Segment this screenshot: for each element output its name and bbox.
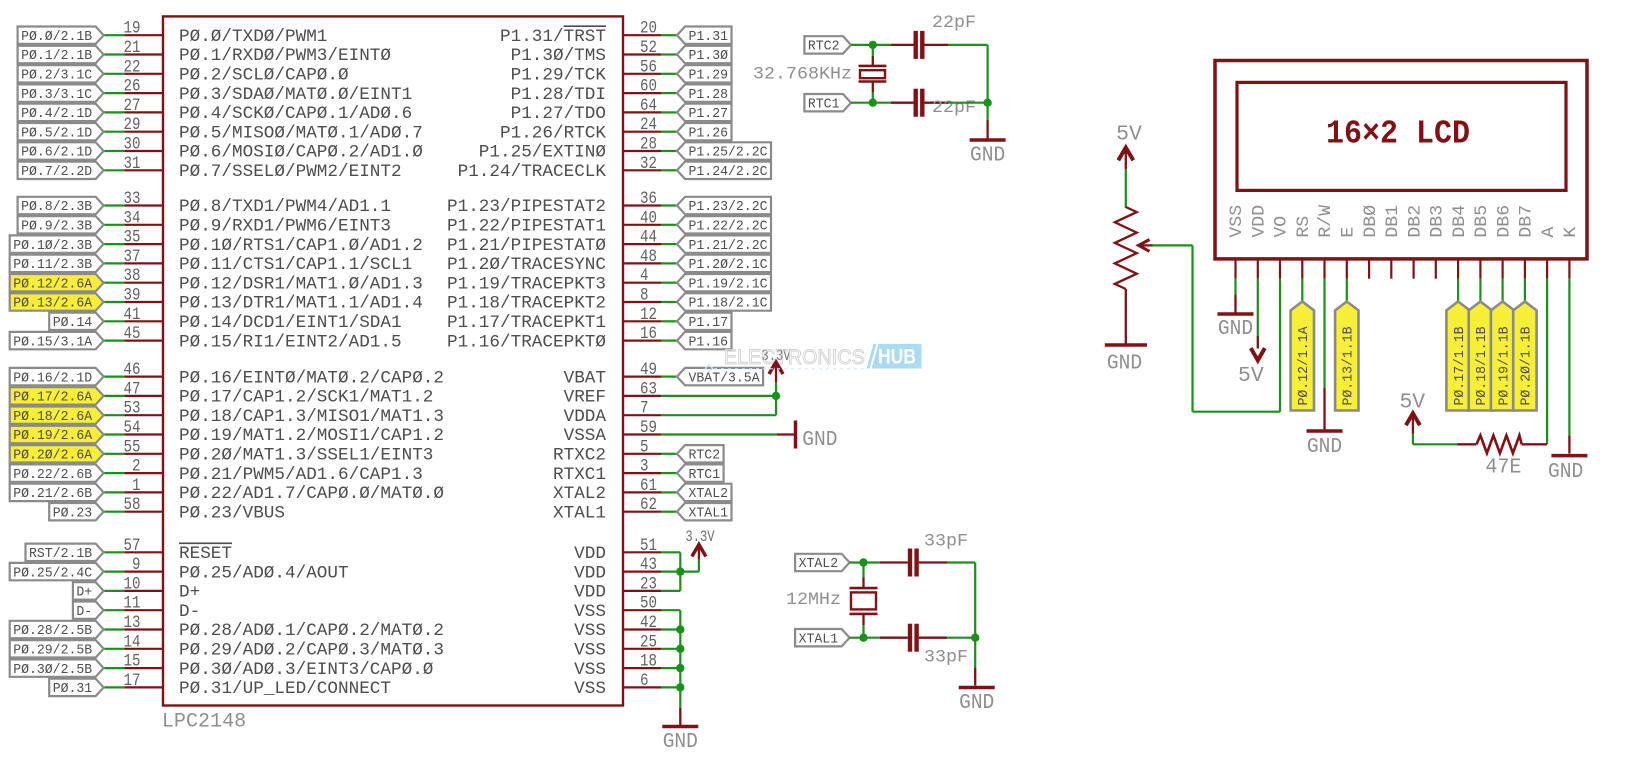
- svg-text:11: 11: [124, 594, 141, 614]
- svg-text:PØ.1/2.1B: PØ.1/2.1B: [21, 48, 92, 64]
- svg-text:P1.25/2.2C: P1.25/2.2C: [689, 145, 768, 161]
- svg-text:49: 49: [640, 360, 657, 380]
- pin 21 stub: [124, 53, 163, 55]
- pin 23 stub: [623, 590, 661, 592]
- svg-text:VBAT: VBAT: [564, 369, 606, 388]
- net wire P1.27: [661, 111, 677, 113]
- svg-text:RS: RS: [1295, 216, 1314, 238]
- svg-text:P1.31/TRST: P1.31/TRST: [500, 28, 606, 47]
- pin 25 stub: [623, 648, 661, 650]
- net flag P1.25/2.2C: [677, 142, 771, 159]
- svg-text:PØ.2Ø/1.1B: PØ.2Ø/1.1B: [1519, 327, 1535, 406]
- svg-text:RTC1: RTC1: [808, 96, 840, 112]
- svg-text:RTXC2: RTXC2: [553, 447, 606, 466]
- svg-text:GND: GND: [1107, 351, 1142, 376]
- svg-text:PØ.25/2.4C: PØ.25/2.4C: [13, 565, 92, 581]
- svg-text:PØ.17/2.6A: PØ.17/2.6A: [13, 390, 93, 406]
- svg-text:63: 63: [640, 379, 657, 399]
- svg-text:DB7: DB7: [1518, 205, 1537, 238]
- svg-text:43: 43: [640, 555, 657, 575]
- net wire VSS: [661, 628, 680, 630]
- net wire VSS: [661, 648, 680, 650]
- junction 33pF GND: [971, 634, 979, 642]
- net wire E(LCD): [1346, 279, 1348, 303]
- svg-text:P1.2Ø/2.1C: P1.2Ø/2.1C: [689, 257, 768, 273]
- net wire RTC1: [661, 472, 677, 474]
- pin 62 stub: [623, 511, 661, 513]
- LCD display window: [1237, 82, 1566, 190]
- svg-text:44: 44: [640, 228, 657, 248]
- net wire P0.12/2.6A: [104, 282, 125, 284]
- svg-text:VBAT/3.5A: VBAT/3.5A: [689, 370, 761, 386]
- svg-text:PØ.12/DSR1/MAT1.Ø/AD1.3: PØ.12/DSR1/MAT1.Ø/AD1.3: [179, 275, 423, 294]
- svg-text:K: K: [1562, 226, 1581, 238]
- svg-text:18: 18: [640, 652, 657, 672]
- svg-text:PØ.11/CTS1/CAP1.1/SCL1: PØ.11/CTS1/CAP1.1/SCL1: [179, 256, 412, 275]
- LCD pin stub DB5: [1479, 259, 1481, 279]
- svg-text:P1.31: P1.31: [689, 29, 729, 45]
- svg-text:P1.22/PIPESTAT1: P1.22/PIPESTAT1: [447, 218, 606, 237]
- svg-text:P1.28: P1.28: [689, 87, 729, 103]
- pin 32 stub: [623, 169, 661, 171]
- svg-text:PØ.2Ø/MAT1.3/SSEL1/EINT3: PØ.2Ø/MAT1.3/SSEL1/EINT3: [179, 447, 433, 466]
- resistor R1 47E: [1458, 443, 1477, 445]
- net wire VSS(LCD): [1234, 279, 1236, 295]
- net wire P0.29/2.5B: [104, 648, 125, 650]
- pin 45 stub: [124, 340, 163, 342]
- pin 63 stub: [623, 395, 661, 397]
- svg-text:40: 40: [640, 208, 657, 228]
- pin 39 stub: [124, 301, 163, 303]
- svg-text:D-: D-: [76, 604, 92, 620]
- svg-text:PØ.17/CAP1.2/SCK1/MAT1.2: PØ.17/CAP1.2/SCK1/MAT1.2: [179, 389, 433, 408]
- svg-text:61: 61: [640, 476, 657, 496]
- net wire P0.23: [104, 511, 125, 513]
- svg-text:39: 39: [124, 286, 141, 306]
- svg-text:RESET: RESET: [179, 545, 232, 564]
- svg-text:PØ.19/2.6A: PØ.19/2.6A: [13, 428, 93, 444]
- svg-text:PØ.17/1.1B: PØ.17/1.1B: [1452, 327, 1468, 406]
- svg-text:13: 13: [124, 613, 141, 633]
- net wire GND vertical (33pF): [974, 563, 976, 638]
- net wire P0.4/2.1D: [104, 111, 125, 113]
- svg-text:XTAL2: XTAL2: [799, 556, 839, 572]
- svg-text:VDDA: VDDA: [564, 408, 607, 427]
- net wire RS(LCD): [1301, 279, 1303, 303]
- net flag P0.4/2.1D: [18, 104, 104, 121]
- svg-text:PØ.29/ADØ.2/CAPØ.3/MATØ.3: PØ.29/ADØ.2/CAPØ.3/MATØ.3: [179, 642, 444, 661]
- svg-text:3: 3: [640, 457, 649, 477]
- svg-text:D+: D+: [76, 585, 92, 601]
- net flag P1.24/2.2C: [677, 162, 771, 179]
- svg-text:24: 24: [640, 115, 657, 135]
- LCD pin stub VO: [1279, 259, 1281, 279]
- net wire P1.28: [661, 92, 677, 94]
- pin 10 stub: [124, 590, 163, 592]
- net flag P1.22/2.2C: [677, 216, 771, 233]
- svg-text:PØ.1Ø/2.3B: PØ.1Ø/2.3B: [13, 238, 92, 254]
- svg-text:PØ.9/RXD1/PWM6/EINT3: PØ.9/RXD1/PWM6/EINT3: [179, 218, 391, 237]
- svg-text:PØ.12/1.1A: PØ.12/1.1A: [1296, 326, 1312, 406]
- net wire P0.19/1.1B: [1501, 279, 1503, 303]
- svg-text:12: 12: [640, 305, 657, 325]
- crystal Q2 12MHz: [862, 563, 864, 578]
- svg-text:VSS: VSS: [574, 622, 606, 641]
- LCD pin stub VDD: [1257, 259, 1259, 279]
- net wire P0.20/2.6A: [104, 453, 125, 455]
- net flag XTAL2: [677, 484, 732, 501]
- svg-text:XTAL1: XTAL1: [689, 505, 729, 521]
- svg-text:DB5: DB5: [1473, 205, 1492, 238]
- net wire P0.11/2.3B: [104, 262, 125, 264]
- svg-text:PØ.8/TXD1/PWM4/AD1.1: PØ.8/TXD1/PWM4/AD1.1: [179, 198, 391, 217]
- net wire GND vertical (22pF): [986, 45, 988, 103]
- svg-text:PØ.19/1.1B: PØ.19/1.1B: [1496, 327, 1512, 406]
- net wire P1.30: [661, 53, 677, 55]
- svg-text:29: 29: [124, 115, 141, 135]
- net flag P0.18/1.1B: [1469, 302, 1492, 411]
- svg-text:DB3: DB3: [1429, 205, 1448, 238]
- net wire P0.16/2.1D: [104, 376, 125, 378]
- net flag RTC2: [804, 36, 851, 53]
- net flag P1.17: [677, 313, 732, 330]
- supply 5V arrow (pot): [1118, 148, 1133, 161]
- net wire P0.1/2.1B: [104, 53, 125, 55]
- svg-text:38: 38: [124, 266, 141, 286]
- svg-text:P1.16: P1.16: [689, 334, 729, 350]
- svg-text:PØ.19/MAT1.2/MOSI1/CAP1.2: PØ.19/MAT1.2/MOSI1/CAP1.2: [179, 427, 444, 446]
- svg-text:P1.21/PIPESTATØ: P1.21/PIPESTATØ: [447, 237, 606, 256]
- svg-text:14: 14: [124, 632, 141, 652]
- svg-text:P1.22/2.2C: P1.22/2.2C: [689, 219, 768, 235]
- svg-text:1: 1: [132, 476, 141, 496]
- capacitor C2 22pF: [891, 102, 914, 104]
- pin 36 stub: [623, 204, 661, 206]
- ground GND (VSS): [662, 725, 698, 729]
- svg-text:XTAL2: XTAL2: [689, 486, 729, 502]
- pin 34 stub: [124, 224, 163, 226]
- pin 30 stub: [124, 150, 163, 152]
- svg-text:8: 8: [640, 286, 649, 306]
- svg-text:50: 50: [640, 594, 657, 614]
- net wire P1.24/2.2C: [661, 169, 677, 171]
- svg-text:PØ.Ø/2.1B: PØ.Ø/2.1B: [21, 29, 92, 45]
- pin 9 stub: [124, 570, 163, 572]
- svg-text:A: A: [1540, 226, 1559, 238]
- net flag P0.19/1.1B: [1491, 302, 1514, 411]
- pin 6 stub: [623, 686, 661, 688]
- net wire VDD: [661, 551, 680, 553]
- ground GND (VSSA) rotated: [777, 433, 794, 435]
- RESET overline: [179, 542, 232, 544]
- svg-text:PØ.6/MOSIØ/CAPØ.2/AD1.Ø: PØ.6/MOSIØ/CAPØ.2/AD1.Ø: [179, 144, 423, 163]
- svg-text:16: 16: [640, 324, 657, 344]
- net wire P0.8/2.3B: [104, 204, 125, 206]
- net flag P1.30: [677, 46, 732, 63]
- svg-text:PØ.18/1.1B: PØ.18/1.1B: [1474, 327, 1490, 406]
- net wire VDD: [661, 590, 680, 592]
- net flag P0.25/2.4C: [10, 563, 104, 580]
- net wire P0.17/1.1B: [1457, 279, 1459, 303]
- svg-text:PØ.Ø/TXDØ/PWM1: PØ.Ø/TXDØ/PWM1: [179, 28, 327, 47]
- svg-text:VDD: VDD: [574, 545, 606, 564]
- VSS bus wire: [679, 610, 681, 687]
- junction VREF/VDDA: [772, 392, 780, 400]
- svg-text:PØ.23/VBUS: PØ.23/VBUS: [179, 504, 285, 523]
- watermark HUB box: [872, 344, 922, 369]
- svg-text:VDD: VDD: [574, 584, 606, 603]
- pin 12 stub: [623, 320, 661, 322]
- svg-text:LPC2148: LPC2148: [162, 710, 246, 733]
- pin 48 stub: [623, 262, 661, 264]
- ground GND (LCD VSS): [1234, 295, 1236, 313]
- net wire P0.13/2.6A: [104, 301, 125, 303]
- svg-text:17: 17: [124, 671, 141, 691]
- svg-text:52: 52: [640, 38, 657, 58]
- LCD pin stub DB4: [1457, 259, 1459, 279]
- svg-text:22: 22: [124, 57, 141, 77]
- svg-text:25: 25: [640, 632, 657, 652]
- net flag D+: [73, 582, 104, 599]
- IC U1 LPC2148 body: [163, 16, 623, 705]
- pin 7 stub: [623, 414, 661, 416]
- net flag P0.20/2.6A: [10, 445, 104, 462]
- net wire P1.29: [661, 73, 677, 75]
- svg-text:P1.3Ø: P1.3Ø: [689, 48, 729, 64]
- svg-text:31: 31: [124, 154, 141, 174]
- svg-text:VSS: VSS: [574, 642, 606, 661]
- svg-text:DB2: DB2: [1406, 205, 1425, 238]
- svg-text:PØ.2/3.1C: PØ.2/3.1C: [21, 68, 92, 84]
- svg-text:54: 54: [124, 418, 141, 438]
- svg-text:PØ.16/EINTØ/MATØ.2/CAPØ.2: PØ.16/EINTØ/MATØ.2/CAPØ.2: [179, 369, 444, 388]
- junction 22pF GND: [983, 99, 991, 107]
- svg-text:VSS: VSS: [1228, 205, 1247, 238]
- pin 29 stub: [124, 131, 163, 133]
- net wire P0.20/1.1B: [1524, 279, 1526, 303]
- net wire XTAL2: [850, 561, 880, 563]
- svg-text:PØ.21/2.6B: PØ.21/2.6B: [13, 486, 92, 502]
- svg-text:PØ.12/2.6A: PØ.12/2.6A: [13, 276, 93, 292]
- net wire VSS: [661, 667, 680, 669]
- net flag P0.30/2.5B: [10, 659, 104, 676]
- svg-text:PØ.18/CAP1.3/MISO1/MAT1.3: PØ.18/CAP1.3/MISO1/MAT1.3: [179, 408, 444, 427]
- svg-text:15: 15: [124, 652, 141, 672]
- net wire VO(LCD): [1279, 279, 1281, 412]
- svg-text:P1.27/TDO: P1.27/TDO: [511, 105, 606, 124]
- net wire P1.20/2.1C: [661, 262, 677, 264]
- pin 64 stub: [623, 111, 661, 113]
- svg-text:PØ.1Ø/RTS1/CAP1.Ø/AD1.2: PØ.1Ø/RTS1/CAP1.Ø/AD1.2: [179, 237, 423, 256]
- pin 53 stub: [124, 414, 163, 416]
- pin 41 stub: [124, 320, 163, 322]
- pin 51 stub: [623, 551, 661, 553]
- svg-text:30: 30: [124, 135, 141, 155]
- svg-text:ELECTRONICS: ELECTRONICS: [724, 345, 865, 369]
- pin 56 stub: [623, 73, 661, 75]
- svg-text:35: 35: [124, 228, 141, 248]
- svg-text:PØ.21/PWM5/AD1.6/CAP1.3: PØ.21/PWM5/AD1.6/CAP1.3: [179, 466, 423, 485]
- svg-text:RTC2: RTC2: [808, 39, 840, 55]
- svg-text:PØ.1/RXDØ/PWM3/EINTØ: PØ.1/RXDØ/PWM3/EINTØ: [179, 47, 391, 66]
- svg-text:P1.27: P1.27: [689, 106, 729, 122]
- net flag RTC1: [677, 464, 724, 481]
- net wire P0.30/2.5B: [104, 667, 125, 669]
- net wire VDDA: [661, 414, 776, 416]
- LCD pin stub A: [1546, 259, 1548, 279]
- pin 1 stub: [124, 491, 163, 493]
- svg-text:P1.19/2.1C: P1.19/2.1C: [689, 276, 768, 292]
- svg-text:PØ.14/DCD1/EINT1/SDA1: PØ.14/DCD1/EINT1/SDA1: [179, 314, 402, 333]
- pin 61 stub: [623, 491, 661, 493]
- net wire D-: [104, 609, 125, 611]
- svg-text:3.3V: 3.3V: [685, 528, 714, 546]
- svg-text:12MHz: 12MHz: [786, 591, 841, 610]
- net wire P1.21/2.2C: [661, 243, 677, 245]
- pin 47 stub: [124, 395, 163, 397]
- svg-text:22pF: 22pF: [932, 14, 976, 33]
- pin 13 stub: [124, 628, 163, 630]
- LCD pin stub E: [1346, 259, 1348, 279]
- net wire VSSA: [661, 433, 777, 435]
- pin 60 stub: [623, 92, 661, 94]
- svg-text:P1.3Ø/TMS: P1.3Ø/TMS: [511, 47, 606, 66]
- svg-text:P1.26/RTCK: P1.26/RTCK: [500, 124, 607, 143]
- net flag P0.15/3.1A: [10, 332, 104, 349]
- net flag P1.18/2.1C: [677, 293, 771, 310]
- svg-text:PØ.2/SCLØ/CAPØ.Ø: PØ.2/SCLØ/CAPØ.Ø: [179, 67, 349, 86]
- svg-text:PØ.5/MISOØ/MATØ.1/ADØ.7: PØ.5/MISOØ/MATØ.1/ADØ.7: [179, 124, 423, 143]
- net wire P0.0/2.1B: [104, 34, 125, 36]
- net flag P0.17/1.1B: [1446, 302, 1469, 411]
- svg-text:PØ.3/SDAØ/MATØ.Ø/EINT1: PØ.3/SDAØ/MATØ.Ø/EINT1: [179, 86, 412, 105]
- pin 37 stub: [124, 262, 163, 264]
- svg-text:PØ.9/2.3B: PØ.9/2.3B: [21, 219, 92, 235]
- LCD pin stub DB3: [1435, 259, 1437, 279]
- ground GND (33pF): [974, 668, 976, 686]
- pin 59 stub: [623, 433, 661, 435]
- net flag P0.10/2.3B: [10, 235, 104, 252]
- svg-text:P1.26: P1.26: [689, 125, 729, 141]
- net flag RTC1: [804, 94, 851, 111]
- svg-text:VSS: VSS: [574, 661, 606, 680]
- svg-text:47E: 47E: [1485, 455, 1521, 480]
- net wire P1.18/2.1C: [661, 301, 677, 303]
- svg-text:P1.25/EXTINØ: P1.25/EXTINØ: [479, 144, 606, 163]
- svg-text:VREF: VREF: [564, 389, 606, 408]
- svg-text:36: 36: [640, 189, 657, 209]
- capacitor C1 22pF: [891, 44, 914, 46]
- pin 57 stub: [124, 551, 163, 553]
- LCD pin stub RS: [1301, 259, 1303, 279]
- svg-text:P1.19/TRACEPKT3: P1.19/TRACEPKT3: [447, 275, 606, 294]
- LCD pin stub K: [1568, 259, 1570, 279]
- net wire P0.14: [104, 320, 125, 322]
- svg-text:PØ.5/2.1D: PØ.5/2.1D: [21, 125, 92, 141]
- svg-text:P1.17: P1.17: [689, 315, 729, 331]
- pin 22 stub: [124, 73, 163, 75]
- svg-text:10: 10: [124, 574, 141, 594]
- potentiometer RV1 wiper arrow: [1139, 240, 1150, 252]
- LCD pin stub R/W: [1323, 259, 1325, 279]
- net flag P0.17/2.6A: [10, 387, 104, 404]
- svg-text:P1.2Ø/TRACESYNC: P1.2Ø/TRACESYNC: [447, 256, 606, 275]
- svg-text:27: 27: [124, 96, 141, 116]
- svg-text:59: 59: [640, 418, 657, 438]
- svg-text:GND: GND: [1218, 316, 1253, 341]
- supply 3.3V arrow (VDD): [698, 546, 700, 559]
- wire VDD to 3.3V: [680, 570, 699, 572]
- svg-text:2: 2: [132, 457, 141, 477]
- svg-text:P1.24/TRACECLK: P1.24/TRACECLK: [458, 163, 607, 182]
- svg-text:VDD: VDD: [574, 564, 606, 583]
- watermark slash: [867, 344, 877, 369]
- pin 35 stub: [124, 243, 163, 245]
- svg-text:19: 19: [124, 19, 141, 39]
- pin 14 stub: [124, 648, 163, 650]
- svg-text:GND: GND: [663, 729, 698, 754]
- svg-text:GND: GND: [959, 690, 994, 715]
- net wire P0.15/3.1A: [104, 340, 125, 342]
- junction XTAL2: [859, 558, 867, 566]
- net wire P1.22/2.2C: [661, 224, 677, 226]
- net flag P0.21/2.6B: [10, 484, 104, 501]
- net flag P1.26: [677, 123, 732, 140]
- svg-text:51: 51: [640, 536, 657, 556]
- net flag P0.19/2.6A: [10, 426, 104, 443]
- svg-text:PØ.6/2.1D: PØ.6/2.1D: [21, 145, 92, 161]
- pin 20 stub: [623, 34, 661, 36]
- svg-text:57: 57: [124, 536, 141, 556]
- net flag P0.12/1.1A: [1291, 302, 1314, 411]
- svg-text:RTC2: RTC2: [689, 448, 721, 464]
- svg-text:RTC1: RTC1: [689, 467, 721, 483]
- pin 3 stub: [623, 472, 661, 474]
- pin 17 stub: [124, 686, 163, 688]
- pin 50 stub: [623, 609, 661, 611]
- net wire P0.17/2.6A: [104, 395, 125, 397]
- net flag P0.13/2.6A: [10, 293, 104, 310]
- net flag P0.23: [49, 503, 103, 520]
- pin 44 stub: [623, 243, 661, 245]
- watermark dashed underline: [714, 368, 866, 370]
- net wire VBAT/3.5A: [661, 376, 677, 378]
- pin 54 stub: [124, 433, 163, 435]
- svg-text:42: 42: [640, 613, 657, 633]
- svg-text:PØ.18/2.6A: PØ.18/2.6A: [13, 409, 93, 425]
- svg-text:DB6: DB6: [1495, 205, 1514, 238]
- svg-text:32: 32: [640, 154, 657, 174]
- junction VDD: [676, 567, 684, 575]
- net flag P1.21/2.2C: [677, 235, 771, 252]
- net flag P0.7/2.2D: [18, 162, 104, 179]
- net flag P0.31: [49, 679, 103, 696]
- svg-text:60: 60: [640, 77, 657, 97]
- svg-text:PØ.3Ø/ADØ.3/EINT3/CAPØ.Ø: PØ.3Ø/ADØ.3/EINT3/CAPØ.Ø: [179, 661, 433, 680]
- svg-text:GND: GND: [1548, 459, 1583, 484]
- svg-text:64: 64: [640, 96, 657, 116]
- svg-text:VO: VO: [1273, 216, 1292, 238]
- pin 38 stub: [124, 282, 163, 284]
- svg-text:VSS: VSS: [574, 680, 606, 699]
- net flag P0.8/2.3B: [18, 197, 104, 214]
- svg-text:PØ.8/2.3B: PØ.8/2.3B: [21, 199, 92, 215]
- svg-text:26: 26: [124, 77, 141, 97]
- svg-text:XTAL1: XTAL1: [799, 631, 839, 647]
- ground GND (LCD K): [1568, 435, 1570, 453]
- net flag P1.29: [677, 65, 732, 82]
- svg-text:PØ.13/1.1B: PØ.13/1.1B: [1341, 327, 1357, 406]
